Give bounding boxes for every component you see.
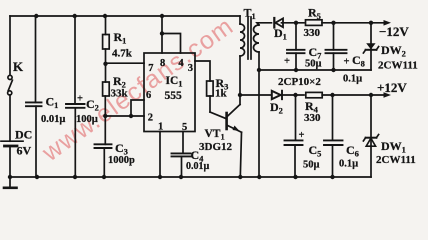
svg-text:4.7k: 4.7k — [112, 48, 133, 60]
svg-text:6: 6 — [146, 90, 151, 101]
wire mid rail — [259, 69, 371, 71]
arrow -12V — [384, 20, 392, 26]
svg-text:555: 555 — [165, 90, 183, 102]
wire pin4 bracket — [162, 34, 181, 54]
diode D2 — [272, 91, 281, 99]
svg-text:+: + — [299, 130, 305, 141]
svg-text:+: + — [284, 56, 290, 67]
svg-text:3: 3 — [188, 63, 193, 74]
svg-text:1000p: 1000p — [108, 155, 135, 166]
resistor R1 — [105, 16, 107, 35]
svg-text:0.1µ: 0.1µ — [343, 74, 362, 85]
capacitor C3 — [95, 143, 112, 145]
wire pin8 column — [161, 16, 163, 53]
svg-text:K: K — [13, 59, 24, 74]
svg-text:50µ: 50µ — [303, 160, 320, 171]
zener DW1 — [370, 95, 372, 177]
wire left column to switch — [9, 16, 11, 75]
svg-text:0.01µ: 0.01µ — [41, 114, 65, 125]
svg-text:+12V: +12V — [377, 80, 407, 95]
wire pin7 row — [106, 62, 145, 64]
capacitor C5 — [295, 95, 297, 140]
transformer T1 — [239, 16, 241, 24]
wire pin1 column — [159, 132, 161, 178]
resistor R2 — [103, 82, 110, 96]
svg-text:8: 8 — [160, 58, 165, 69]
zener DW2 — [370, 23, 372, 70]
capacitor C2 — [74, 16, 76, 104]
svg-text:6V: 6V — [17, 144, 32, 158]
svg-text:DC: DC — [15, 128, 32, 142]
diode D1 — [275, 18, 283, 27]
battery DC plates — [1, 140, 23, 142]
svg-text:0.01µ: 0.01µ — [186, 161, 210, 172]
wire bottom rail — [10, 176, 371, 178]
svg-text:2CW111: 2CW111 — [376, 154, 416, 166]
wire battery to bottom rail — [9, 146, 11, 177]
svg-text:0.1µ: 0.1µ — [339, 159, 358, 170]
svg-text:+: + — [344, 57, 350, 68]
switch K — [8, 75, 12, 79]
wire emitter column — [240, 132, 241, 177]
resistor R5 — [306, 20, 323, 26]
wire pin2 row — [105, 115, 144, 117]
wire secondary bottom column — [258, 52, 260, 177]
wire -12V row — [282, 22, 305, 24]
svg-text:4: 4 — [178, 58, 184, 69]
svg-text:2CP10×2: 2CP10×2 — [278, 76, 321, 88]
wire base diagonal — [210, 112, 226, 119]
svg-text:+: + — [77, 93, 83, 104]
svg-text:100µ: 100µ — [76, 114, 98, 125]
svg-text:1k: 1k — [215, 88, 228, 100]
svg-text:330: 330 — [304, 112, 321, 124]
svg-text:7: 7 — [148, 63, 153, 74]
svg-text:2CW111: 2CW111 — [378, 60, 418, 72]
wire top rail — [10, 15, 240, 17]
svg-text:2: 2 — [148, 113, 153, 124]
wire pin3 row — [195, 61, 210, 81]
svg-text:3DG12: 3DG12 — [199, 141, 233, 153]
wire pin5 column — [182, 132, 184, 154]
svg-text:1: 1 — [158, 122, 163, 133]
arrow +12V — [384, 92, 392, 98]
capacitor C8 — [333, 23, 335, 50]
resistor R4 — [306, 92, 322, 97]
svg-text:50µ: 50µ — [305, 59, 322, 70]
resistor R3 — [207, 81, 214, 96]
capacitor C7 — [295, 23, 297, 50]
wire switch to battery — [9, 95, 11, 141]
svg-text:−12V: −12V — [379, 24, 409, 39]
wire +12V row — [240, 94, 272, 96]
battery negative stub — [9, 177, 11, 187]
svg-text:5: 5 — [182, 122, 187, 133]
capacitor C4 — [172, 152, 191, 154]
op-amp IC1 555 box — [144, 53, 195, 132]
wire collector column — [239, 56, 241, 105]
wire pin6 stub — [131, 100, 144, 116]
capacitor C6 — [332, 95, 334, 140]
transistor VT1 — [225, 113, 228, 129]
capacitor C1 — [35, 16, 37, 102]
svg-text:330: 330 — [304, 27, 321, 39]
svg-text:33k: 33k — [111, 87, 129, 99]
